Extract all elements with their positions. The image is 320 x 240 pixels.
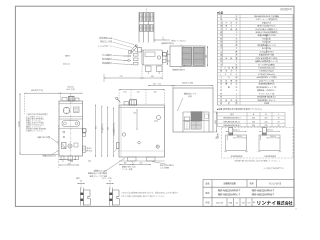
grille right dim — [207, 46, 209, 67]
plan view body inner parts — [145, 52, 155, 57]
clearance inner dim 100 — [233, 137, 247, 139]
rear unit left boxes — [184, 117, 190, 121]
svg-text:450: 450 — [252, 121, 255, 123]
svg-text:(スリーブ共): (スリーブ共) — [102, 177, 112, 180]
side view body — [119, 105, 165, 157]
rear unit vent lower — [191, 122, 201, 130]
svg-text:9.30kW(8,000kcal/h): 9.30kW(8,000kcal/h) — [258, 68, 275, 70]
svg-text:RBF-A80S2N-RR-L-T: RBF-A80S2N-RR-L-T — [218, 194, 241, 197]
clearance examples dashed box — [222, 128, 294, 159]
plan view wall shaft hatching — [138, 12, 140, 43]
plan view leader lines — [113, 39, 135, 45]
svg-text:mm: mm — [248, 202, 251, 204]
side view bottom dims — [119, 164, 132, 166]
title block frame — [203, 180, 294, 207]
svg-text:設置例: 設置例 — [216, 133, 219, 138]
svg-text:210: 210 — [265, 118, 268, 120]
svg-text:210: 210 — [265, 125, 268, 127]
svg-text:(1,045): (1,045) — [18, 121, 20, 127]
clearance diagram flue chimney — [262, 128, 266, 135]
clearance diagram top dimension — [259, 131, 280, 133]
clearance diagram top dimension — [226, 131, 247, 133]
plan view dimension arrow right of shaft — [154, 39, 170, 41]
front view burner window capsule — [62, 121, 80, 127]
wall opening rectangle — [173, 88, 213, 132]
clearance left small dim — [260, 135, 262, 140]
front view left wall marks — [58, 141, 60, 143]
front view control box — [74, 107, 80, 113]
front view line under capsule — [59, 127, 83, 129]
svg-text:(承認図1/2): (承認図1/2) — [280, 7, 292, 11]
hook detail 1 — [80, 183, 82, 191]
clearance inner dim 100 — [266, 137, 280, 139]
svg-text:240: 240 — [68, 163, 71, 165]
svg-text:160: 160 — [154, 91, 157, 93]
svg-text:壁厚: 壁厚 — [76, 177, 80, 180]
dimension table — [218, 112, 286, 127]
svg-text:6.5: 6.5 — [80, 181, 82, 183]
front view body — [59, 101, 83, 156]
front view lower interior parts — [63, 131, 65, 133]
plan view centerline — [146, 9, 148, 13]
far left vertical dimension — [19, 93, 21, 154]
svg-text:( 排気筒を横へ曲げる場合は上記寸法を確保してください。 ): ( 排気筒を横へ曲げる場合は上記寸法を確保してください。 ) — [234, 159, 280, 162]
svg-text:2016.06: 2016.06 — [216, 202, 224, 204]
svg-text:RBF-A80S2N-RR-B-T: RBF-A80S2N-RR-B-T — [252, 194, 275, 197]
svg-text:70: 70 — [278, 125, 280, 127]
side view inner dim 320 — [136, 109, 138, 130]
side view interior faint lines — [120, 105, 122, 157]
svg-text:75: 75 — [62, 161, 64, 163]
clearance diagram unit square — [259, 135, 280, 151]
svg-text:120: 120 — [70, 161, 73, 163]
svg-text:A3: A3 — [253, 201, 255, 204]
plan view lever/valve detail — [131, 46, 137, 52]
side view hook leader — [116, 97, 118, 99]
svg-text:120: 120 — [137, 91, 140, 93]
svg-text:(45): (45) — [88, 161, 91, 163]
front view top inner line — [59, 103, 83, 105]
svg-text:593: 593 — [108, 127, 110, 130]
svg-text:RBF-A80S2N-RR-R-T: RBF-A80S2N-RR-R-T — [218, 190, 241, 193]
svg-text:R1/2(15A): R1/2(15A) — [262, 41, 271, 44]
svg-text:(225): (225) — [215, 120, 217, 124]
svg-text:189: 189 — [124, 163, 127, 165]
side view top inner line — [119, 106, 165, 108]
leader to side view — [103, 158, 125, 173]
svg-text:160: 160 — [151, 76, 154, 78]
svg-text:Rc1/2(15A): Rc1/2(15A) — [262, 47, 272, 50]
side view circles — [122, 133, 125, 136]
svg-text:770: 770 — [120, 76, 123, 78]
svg-text:210: 210 — [206, 55, 208, 58]
svg-text:(75): (75) — [123, 91, 126, 93]
svg-text:RBF-A80S2N-RR-R-T: RBF-A80S2N-RR-R-T — [223, 117, 241, 120]
spec table grid — [218, 15, 294, 105]
svg-text:9.5: 9.5 — [109, 181, 111, 183]
height dimension lines between views — [95, 105, 97, 158]
plan view left fittings (gas/water connections) — [134, 54, 139, 57]
svg-text:本体側面設置例: 本体側面設置例 — [231, 155, 243, 158]
side view left wall fitting — [117, 143, 120, 149]
clearance bottom corner ticks — [258, 151, 261, 153]
clearance bottom corner ticks — [224, 151, 227, 153]
extension line under notes — [58, 125, 60, 168]
svg-text:8.72kW(7,500kcal/h): 8.72kW(7,500kcal/h) — [258, 74, 275, 76]
svg-text:RBF-A80S2N-RR-L-T: RBF-A80S2N-RR-L-T — [224, 120, 242, 123]
svg-text:1/2: 1/2 — [236, 202, 239, 204]
front view bottom stubs — [61, 156, 64, 160]
front view top pipe stubs — [62, 97, 67, 101]
svg-text:R1/2(15A): R1/2(15A) — [262, 37, 271, 40]
svg-text:703: 703 — [96, 126, 98, 129]
svg-text:320: 320 — [133, 113, 136, 115]
hook detail 2 tabs — [109, 193, 112, 195]
clearance diagram unit square — [226, 135, 247, 151]
side view bottom feet — [128, 157, 137, 161]
front view pilot window circle — [63, 107, 70, 114]
clearance left small dim — [226, 135, 228, 140]
drawing border frame — [15, 6, 294, 206]
svg-text:(450): (450) — [166, 55, 168, 59]
hook detail 2 — [109, 183, 111, 191]
grille hatched louvre panels — [182, 47, 192, 65]
svg-text:9.30kW(0.67kg/h): 9.30kW(0.67kg/h) — [259, 71, 274, 73]
rear unit body in opening — [182, 112, 184, 132]
flue grille panel view — [170, 46, 205, 67]
svg-text:RBF-A80S2N-RR-B-T: RBF-A80S2N-RR-B-T — [223, 124, 241, 127]
side view top dimension line — [119, 89, 165, 91]
front view centerline — [70, 94, 72, 162]
svg-text:451・112: 451・112 — [153, 82, 161, 85]
rear view right dims — [216, 112, 218, 132]
plan view heater body — [142, 50, 163, 65]
plan view bottom pipe stubs — [146, 66, 152, 72]
front view bottom dimensions — [59, 159, 67, 161]
svg-text:250: 250 — [140, 163, 143, 165]
svg-text:70: 70 — [278, 118, 280, 120]
rear unit right column line — [203, 112, 205, 132]
svg-text:70: 70 — [278, 121, 280, 123]
svg-text:450: 450 — [252, 118, 255, 120]
hook detail 1 tabs — [80, 193, 83, 195]
plan view dimensions below — [141, 66, 143, 80]
front view mid lines — [59, 116, 83, 118]
svg-text:450: 450 — [252, 125, 255, 127]
plan view right fittings — [163, 53, 167, 57]
svg-text:RBF-A80S2N-RR-A-T: RBF-A80S2N-RR-A-T — [252, 190, 275, 193]
side view right inner dim — [157, 116, 161, 120]
svg-text:本体側面設置例: 本体側面設置例 — [264, 155, 276, 158]
side view exhaust collar — [130, 100, 137, 105]
rear unit hatched vent upper — [191, 112, 202, 121]
plan view right vertical dim — [167, 50, 169, 65]
clearance diagram flue chimney — [229, 128, 233, 135]
svg-text:210: 210 — [265, 121, 268, 123]
front view right side fittings — [83, 129, 87, 132]
